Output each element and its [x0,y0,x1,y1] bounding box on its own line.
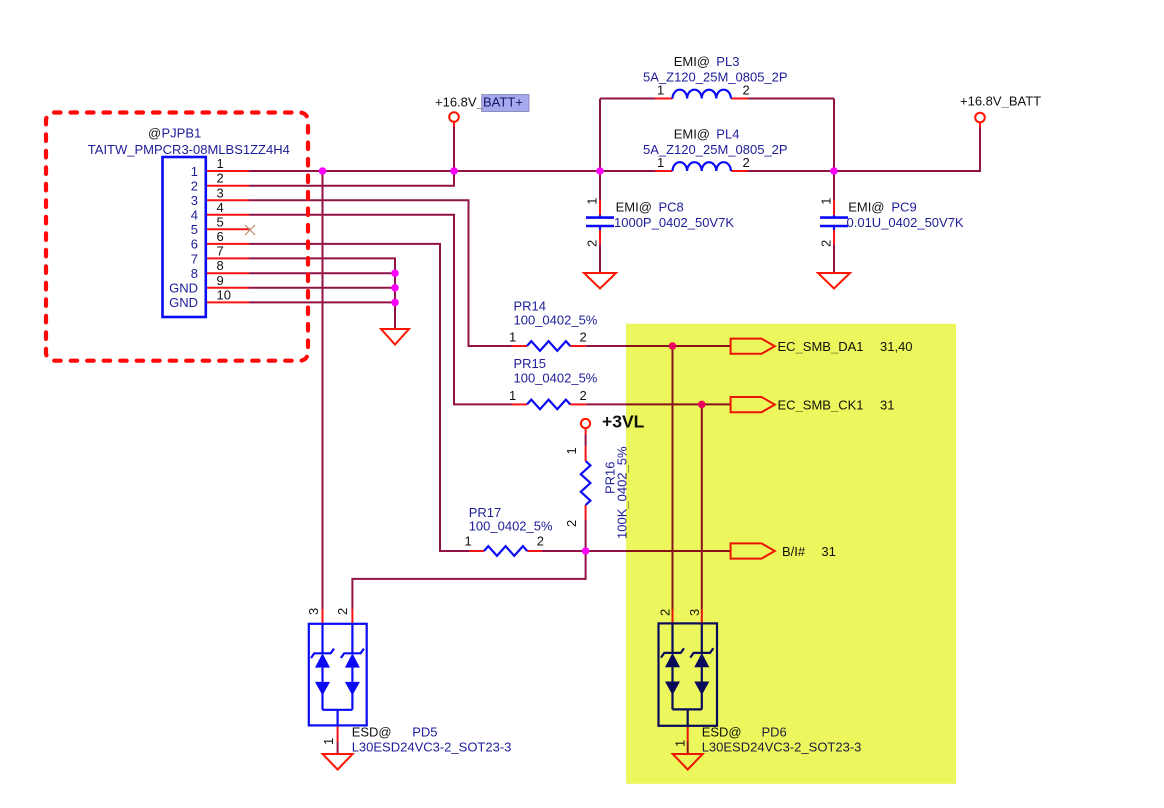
svg-text:5: 5 [217,214,224,229]
svg-text:PL3: PL3 [716,54,739,69]
svg-text:5A_Z120_25M_0805_2P: 5A_Z120_25M_0805_2P [643,70,788,85]
svg-text:1: 1 [819,198,834,205]
svg-text:+16.8V_BATT: +16.8V_BATT [960,94,1041,109]
svg-text:4: 4 [217,200,224,215]
svg-text:1: 1 [191,164,198,179]
svg-text:EMI@: EMI@ [616,199,652,214]
svg-text:2: 2 [585,240,600,247]
svg-text:1: 1 [509,388,516,403]
svg-text:2: 2 [564,520,579,527]
svg-text:10: 10 [217,287,231,302]
svg-text:PJPB1: PJPB1 [162,126,202,141]
svg-text:3: 3 [217,185,224,200]
svg-text:EMI@: EMI@ [674,54,710,69]
svg-text:@: @ [148,126,161,141]
svg-text:PD5: PD5 [412,725,437,740]
svg-text:2: 2 [580,388,587,403]
svg-text:2: 2 [743,155,750,170]
svg-text:7: 7 [217,244,224,259]
svg-text:6: 6 [191,237,198,252]
svg-text:PL4: PL4 [716,127,739,142]
svg-text:PC8: PC8 [659,199,684,214]
svg-text:4: 4 [191,208,198,223]
svg-text:EMI@: EMI@ [674,127,710,142]
svg-text:2: 2 [217,171,224,186]
svg-text:0.01U_0402_50V7K: 0.01U_0402_50V7K [847,215,964,230]
svg-text:PC9: PC9 [891,199,916,214]
svg-text:1: 1 [585,198,600,205]
svg-text:3: 3 [306,608,321,615]
svg-text:100_0402_5%: 100_0402_5% [514,313,598,328]
svg-text:7: 7 [191,251,198,266]
svg-text:2: 2 [191,178,198,193]
svg-text:1: 1 [564,447,579,454]
svg-text:1: 1 [217,156,224,171]
svg-text:1: 1 [465,533,472,548]
svg-text:100_0402_5%: 100_0402_5% [514,371,598,386]
svg-text:2: 2 [335,608,350,615]
svg-text:1: 1 [657,155,664,170]
svg-text:BATT+: BATT+ [483,95,523,110]
svg-text:2: 2 [580,330,587,345]
svg-text:8: 8 [217,258,224,273]
svg-text:2: 2 [743,83,750,98]
svg-text:GND: GND [169,281,198,296]
svg-text:+16.8V_: +16.8V_ [435,95,485,110]
svg-text:3: 3 [191,193,198,208]
svg-text:6: 6 [217,229,224,244]
svg-text:EMI@: EMI@ [848,199,884,214]
svg-text:ESD@: ESD@ [352,725,392,740]
svg-text:PR14: PR14 [514,299,547,314]
svg-text:100_0402_5%: 100_0402_5% [469,519,553,534]
svg-text:1000P_0402_50V7K: 1000P_0402_50V7K [614,215,734,230]
svg-text:5: 5 [191,222,198,237]
svg-text:L30ESD24VC3-2_SOT23-3: L30ESD24VC3-2_SOT23-3 [352,740,512,755]
svg-text:1: 1 [321,738,336,745]
svg-text:PR15: PR15 [514,356,547,371]
svg-text:2: 2 [537,533,544,548]
svg-text:1: 1 [509,330,516,345]
svg-text:GND: GND [169,295,198,310]
svg-text:9: 9 [217,273,224,288]
svg-text:8: 8 [191,266,198,281]
svg-text:2: 2 [819,240,834,247]
svg-text:1: 1 [657,83,664,98]
svg-text:5A_Z120_25M_0805_2P: 5A_Z120_25M_0805_2P [643,142,788,157]
svg-text:TAITW_PMPCR3-08MLBS1ZZ4H4: TAITW_PMPCR3-08MLBS1ZZ4H4 [88,142,290,157]
